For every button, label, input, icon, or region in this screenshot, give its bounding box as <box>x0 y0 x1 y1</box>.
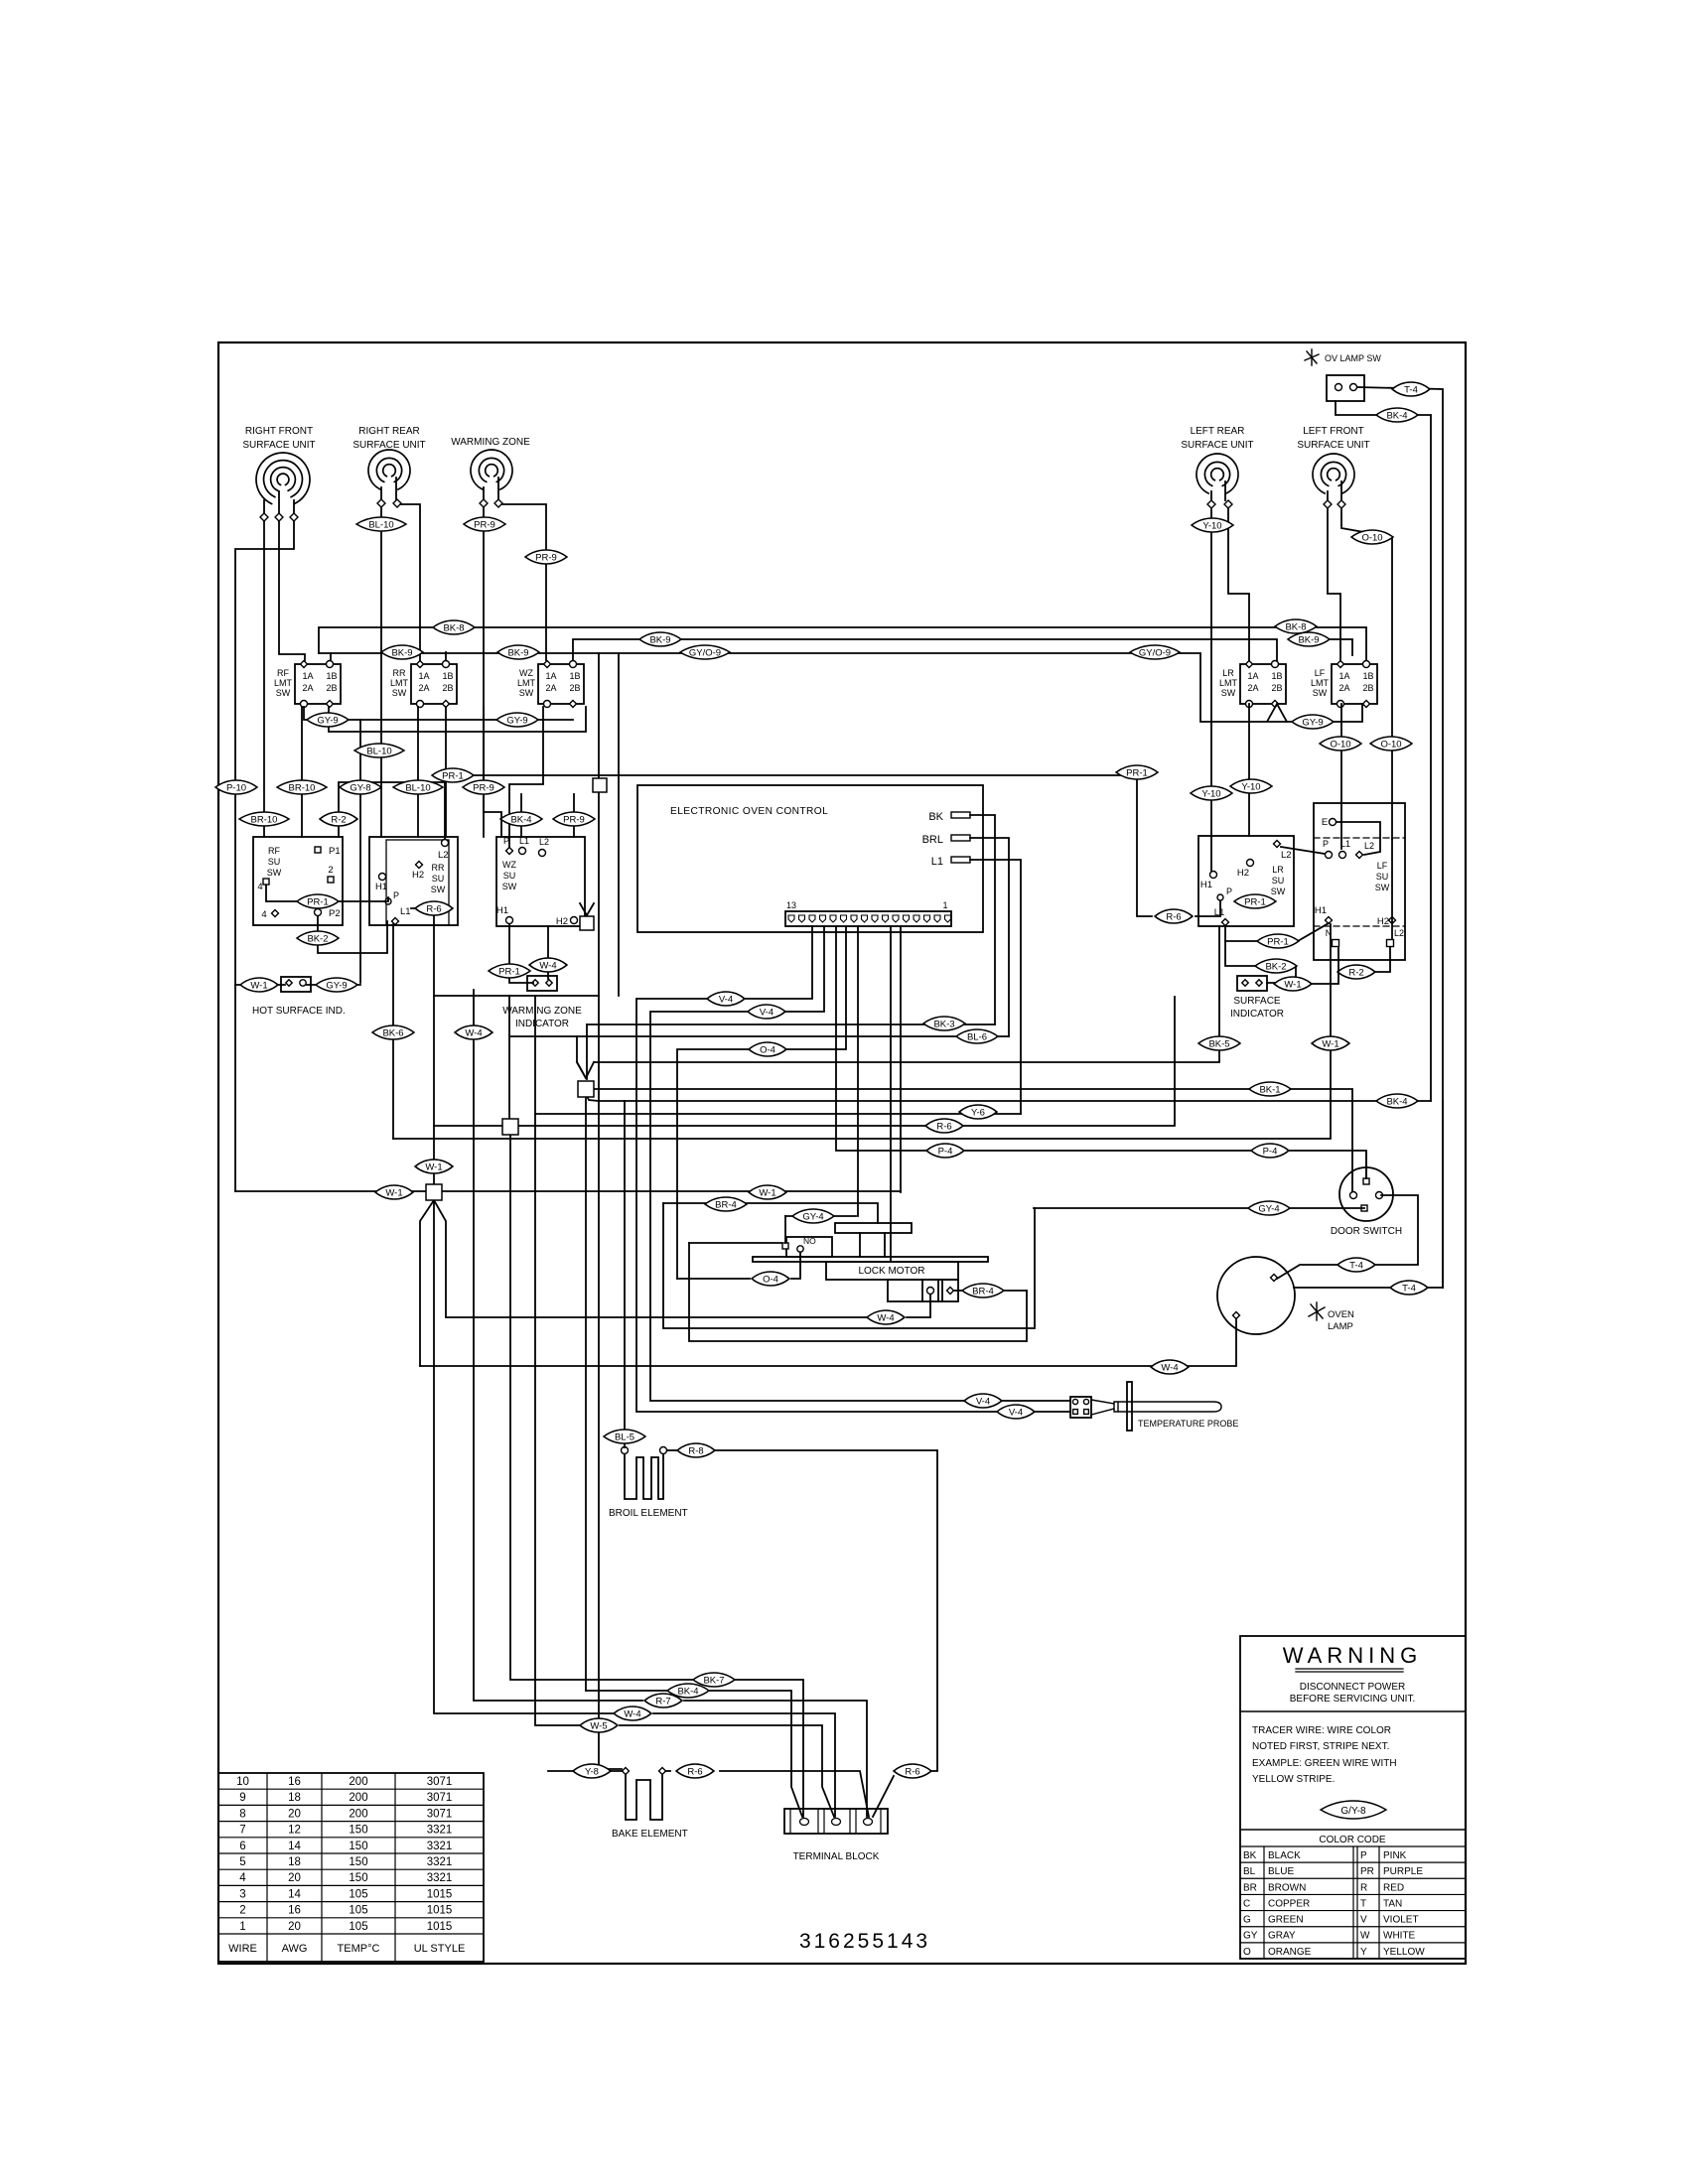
svg-text:SW: SW <box>519 688 534 698</box>
svg-text:L1: L1 <box>400 906 411 917</box>
limit switch WZ LMT SW <box>538 664 584 704</box>
svg-text:P2: P2 <box>329 908 341 919</box>
svg-text:BK-7: BK-7 <box>703 1675 724 1686</box>
wire label PR-1 <box>489 964 530 978</box>
wire label BL-10 <box>354 744 404 757</box>
svg-text:2B: 2B <box>1362 683 1373 693</box>
svg-text:W-1: W-1 <box>759 1187 775 1198</box>
wire pin 864 drop <box>857 926 859 1216</box>
svg-text:105: 105 <box>349 1921 367 1933</box>
svg-text:PR-9: PR-9 <box>563 814 585 825</box>
wire EOC L1 out <box>970 860 1021 1114</box>
svg-text:2B: 2B <box>442 683 453 693</box>
svg-text:ORANGE: ORANGE <box>1268 1947 1312 1958</box>
wire label BK-6 <box>372 1025 414 1039</box>
svg-text:C: C <box>1243 1898 1250 1909</box>
svg-text:LOCK MOTOR: LOCK MOTOR <box>858 1266 924 1277</box>
wire GY-4 row <box>785 1215 856 1217</box>
wire R-6 lr <box>1196 901 1220 916</box>
wire label BK-4 <box>500 812 542 826</box>
wire PR-1 lr <box>1137 775 1152 916</box>
lock motor cap <box>835 1223 912 1233</box>
wire label BK-9 <box>497 645 539 659</box>
svg-text:H2: H2 <box>1237 868 1249 879</box>
wire R-6 wz <box>411 907 434 909</box>
svg-text:16: 16 <box>288 1905 301 1917</box>
svg-text:150: 150 <box>349 1872 367 1884</box>
wire LR coil t2 down <box>1228 508 1249 660</box>
svg-text:3321: 3321 <box>427 1841 453 1852</box>
svg-text:EXAMPLE: GREEN WIRE WITH: EXAMPLE: GREEN WIRE WITH <box>1252 1758 1397 1769</box>
wire R-8 row <box>667 1449 678 1451</box>
svg-text:GY-9: GY-9 <box>317 715 338 726</box>
surface switch WZ SU SW <box>496 837 585 926</box>
svg-text:BR-10: BR-10 <box>289 782 316 793</box>
svg-text:V-4: V-4 <box>1009 1407 1023 1418</box>
svg-text:HOT SURFACE IND.: HOT SURFACE IND. <box>252 1006 346 1017</box>
wire label V-4 <box>748 1005 785 1019</box>
wire label R-2 <box>1337 965 1375 979</box>
svg-text:150: 150 <box>349 1856 367 1868</box>
svg-text:O-10: O-10 <box>1330 739 1350 750</box>
wire BK-3 row <box>587 1024 995 1025</box>
wire label BL-6 <box>956 1029 998 1043</box>
wire R-8 right <box>716 1450 937 1771</box>
svg-text:PR-9: PR-9 <box>535 552 557 563</box>
svg-text:150: 150 <box>349 1825 367 1837</box>
svg-text:SURFACE: SURFACE <box>1233 996 1281 1007</box>
svg-text:O: O <box>1243 1947 1251 1958</box>
wire R-6 vert <box>433 908 435 1184</box>
warming zone indicator <box>527 976 557 991</box>
svg-text:Y-6: Y-6 <box>971 1107 985 1118</box>
svg-text:2A: 2A <box>545 683 556 693</box>
junction J5 <box>580 916 594 930</box>
svg-text:GY/O-9: GY/O-9 <box>689 647 721 658</box>
svg-text:4: 4 <box>239 1872 246 1884</box>
svg-text:P-4: P-4 <box>1263 1146 1278 1157</box>
svg-text:H1: H1 <box>1315 905 1327 916</box>
wire label BL-10 <box>393 780 443 794</box>
svg-text:SW: SW <box>431 885 446 894</box>
surface switch LF SU SW <box>1314 803 1405 960</box>
electronic oven control box <box>637 785 983 932</box>
wire label T-4 <box>1390 1281 1428 1295</box>
svg-text:TEMP°C: TEMP°C <box>338 1943 380 1955</box>
svg-text:GY-8: GY-8 <box>350 782 370 793</box>
svg-text:O-10: O-10 <box>1380 739 1401 750</box>
svg-text:BK-6: BK-6 <box>382 1027 403 1038</box>
oven lamp <box>1217 1257 1295 1334</box>
wire label W-4 <box>867 1310 905 1324</box>
wire label P-4 <box>1251 1144 1289 1158</box>
wire label W-4 <box>529 958 567 972</box>
wire R-7 right <box>684 1701 867 1817</box>
svg-text:LMT: LMT <box>517 678 536 688</box>
wire label T-4 <box>1337 1258 1375 1272</box>
svg-text:SURFACE UNIT: SURFACE UNIT <box>242 440 315 451</box>
svg-text:14: 14 <box>288 1888 301 1900</box>
broil element <box>622 1447 629 1454</box>
svg-text:O-10: O-10 <box>1361 532 1382 543</box>
wire O-10 drop <box>1391 839 1393 939</box>
wire lamp T-4 upper <box>1277 1195 1418 1279</box>
surface switch RF SU SW <box>253 837 343 925</box>
wire label BL-10 <box>356 517 406 531</box>
svg-text:BK-9: BK-9 <box>391 647 412 658</box>
svg-text:R-7: R-7 <box>655 1696 670 1706</box>
wire W-1 fan <box>420 1200 434 1366</box>
svg-text:RF: RF <box>268 846 280 856</box>
wire label GY-9 <box>307 713 349 727</box>
surface switch RR SU SW <box>369 837 458 925</box>
wire WZ coil t2 down <box>502 504 546 660</box>
svg-text:1A: 1A <box>1338 671 1349 681</box>
svg-text:GY-9: GY-9 <box>326 980 347 991</box>
wire label PR-1 <box>1234 894 1276 908</box>
wire junction1 arc <box>586 1094 599 1101</box>
svg-text:LR: LR <box>1272 865 1284 875</box>
wire label R-8 <box>677 1443 715 1457</box>
svg-text:PR-1: PR-1 <box>1126 767 1148 778</box>
wire label BK-4 <box>1376 408 1418 422</box>
wire E link <box>1336 822 1380 855</box>
wire label GY/O-9 <box>1130 645 1180 659</box>
wire label R-6 <box>676 1764 714 1778</box>
svg-text:LR: LR <box>1222 668 1234 678</box>
wire O-4 row <box>677 926 846 1279</box>
wire BK-4 drop <box>520 794 522 837</box>
svg-text:P-10: P-10 <box>226 782 246 793</box>
svg-text:4: 4 <box>257 882 262 892</box>
wire label W-1 <box>375 1185 413 1199</box>
svg-text:T: T <box>1360 1898 1366 1909</box>
wire junction2 down <box>510 1135 693 1680</box>
svg-text:BK-9: BK-9 <box>1298 634 1319 645</box>
svg-text:R-2: R-2 <box>331 814 346 825</box>
wire W-1 long row <box>235 1190 901 1192</box>
svg-text:LF: LF <box>1315 668 1326 678</box>
junction J3 <box>426 1184 442 1200</box>
wire vert 603 <box>599 653 622 1769</box>
door switch <box>1339 1167 1393 1221</box>
svg-text:BRL: BRL <box>922 834 943 846</box>
wire EOC BK out <box>970 815 995 1024</box>
svg-text:WZ: WZ <box>519 668 533 678</box>
svg-text:NO: NO <box>803 1236 816 1246</box>
svg-text:BK-1: BK-1 <box>1259 1084 1280 1095</box>
svg-text:18: 18 <box>288 1856 301 1868</box>
wire label W-1 <box>240 978 278 992</box>
svg-text:PR-1: PR-1 <box>1244 896 1266 907</box>
wire BK-4 right drop <box>1442 1101 1444 1288</box>
svg-text:COLOR CODE: COLOR CODE <box>1319 1835 1386 1845</box>
svg-text:2B: 2B <box>569 683 580 693</box>
wire PR-1 row rf <box>266 886 388 901</box>
wire PR-1 lr2 <box>1225 923 1329 941</box>
wire bake R-6 right <box>666 1770 670 1772</box>
wire label Y-10 <box>1191 786 1232 800</box>
wire RR 1B stub <box>445 652 447 660</box>
limit switch RF LMT SW <box>295 664 341 704</box>
svg-text:BK-4: BK-4 <box>510 814 531 825</box>
wire label BK-4 <box>667 1684 709 1698</box>
svg-text:L2: L2 <box>1364 841 1374 851</box>
svg-text:RR: RR <box>393 668 406 678</box>
wire RF coil t2 down-left <box>279 521 305 660</box>
svg-text:PR-1: PR-1 <box>1267 936 1289 947</box>
EOC connector strip <box>785 911 951 926</box>
svg-text:SW: SW <box>502 882 517 891</box>
wire BK-4 bottom row <box>586 1690 667 1692</box>
wire BK-2 lr <box>1225 941 1256 966</box>
svg-text:GY-9: GY-9 <box>1302 717 1323 728</box>
svg-text:13: 13 <box>786 900 796 910</box>
svg-text:W-4: W-4 <box>1161 1362 1178 1373</box>
limit switch RR LMT SW <box>411 664 457 704</box>
wire door sw top <box>1365 1153 1367 1178</box>
svg-text:BL-10: BL-10 <box>405 782 430 793</box>
wire junction row 1097 <box>594 1089 1352 1191</box>
wire EOC BRL out <box>970 838 1009 1036</box>
wire RF coil t1 to RF SU SW <box>263 521 265 837</box>
wire RF coil t3 down-left <box>235 521 294 1191</box>
wire W-4 bottom right <box>653 1713 835 1817</box>
svg-text:RF: RF <box>277 668 289 678</box>
svg-text:BK-4: BK-4 <box>677 1686 698 1697</box>
svg-text:1B: 1B <box>1362 671 1373 681</box>
svg-text:O-4: O-4 <box>763 1274 778 1285</box>
svg-text:H1: H1 <box>496 905 508 916</box>
svg-text:RR: RR <box>432 863 445 873</box>
wire BK-7 right <box>735 1680 803 1817</box>
wire door GY-4 row <box>1034 1207 1364 1209</box>
wire NO row 1252 <box>689 1242 781 1244</box>
wire Y-6 row <box>535 996 1021 1114</box>
svg-text:W-4: W-4 <box>877 1312 894 1323</box>
svg-text:R-6: R-6 <box>905 1766 919 1777</box>
lock motor plate <box>753 1257 988 1262</box>
svg-text:V-4: V-4 <box>719 994 733 1005</box>
wire label W-1 <box>415 1160 453 1173</box>
svg-text:WARMING ZONE: WARMING ZONE <box>451 437 530 448</box>
svg-text:BR-4: BR-4 <box>715 1199 737 1210</box>
svg-text:T-4: T-4 <box>1349 1260 1363 1271</box>
wire label R-2 <box>320 812 357 826</box>
wire label P-10 <box>215 780 257 794</box>
wire label W-1 <box>1274 977 1312 991</box>
wire V arm left <box>577 1036 586 1078</box>
wire surf ind <box>1267 966 1296 983</box>
junction J4 <box>593 778 607 792</box>
svg-text:1015: 1015 <box>427 1888 453 1900</box>
wire label R-7 <box>644 1694 682 1707</box>
wire label BK-9 <box>1288 632 1330 646</box>
svg-text:P: P <box>1323 839 1329 849</box>
wire V-4 row1 <box>636 926 1070 1412</box>
wire R-2 lf <box>1376 947 1390 972</box>
svg-text:Y-10: Y-10 <box>1241 781 1260 792</box>
wire label GY/O-9 <box>680 645 730 659</box>
surface unit LF coil <box>1313 454 1354 493</box>
wire label BK-1 <box>1249 1082 1291 1096</box>
wire O-4 to NO <box>677 1278 750 1280</box>
wire BK-4 bottom right <box>709 1691 802 1817</box>
svg-text:RIGHT FRONT: RIGHT FRONT <box>245 426 313 437</box>
wire label Y-10 <box>1192 518 1233 532</box>
svg-text:L2: L2 <box>539 837 549 847</box>
wire R-2 link <box>339 782 445 839</box>
svg-text:1A: 1A <box>302 671 313 681</box>
wire label PR-9 <box>553 812 595 826</box>
svg-text:L1: L1 <box>931 856 943 868</box>
lock motor body <box>826 1262 958 1280</box>
svg-text:V-4: V-4 <box>976 1396 990 1407</box>
wire GY-4 NO drop <box>784 1216 786 1243</box>
svg-text:PR-1: PR-1 <box>442 770 464 781</box>
svg-text:BK-8: BK-8 <box>1285 621 1306 632</box>
svg-text:105: 105 <box>349 1905 367 1917</box>
svg-text:Y-10: Y-10 <box>1201 788 1220 799</box>
wire BK-3 vert <box>586 1024 588 1079</box>
svg-text:WARMING ZONE: WARMING ZONE <box>502 1006 582 1017</box>
wire label P-4 <box>926 1144 964 1158</box>
wire GY-8 vertical <box>359 720 361 983</box>
wire W-1 fan2 <box>434 1200 867 1317</box>
svg-text:BK-4: BK-4 <box>1386 410 1407 421</box>
warming zone coil <box>471 450 512 489</box>
svg-text:RIGHT REAR: RIGHT REAR <box>358 426 420 437</box>
wire label BK-4 <box>1376 1094 1418 1108</box>
wire label V-4 <box>707 992 745 1006</box>
wire W-4 lock <box>907 1295 930 1317</box>
svg-text:1015: 1015 <box>427 1905 453 1917</box>
svg-text:200: 200 <box>349 1808 367 1820</box>
svg-text:H2: H2 <box>412 870 424 881</box>
svg-text:150: 150 <box>349 1841 367 1852</box>
wire BR-4 lock right <box>954 1290 962 1292</box>
svg-text:PR-9: PR-9 <box>473 782 494 793</box>
bake element <box>623 1768 630 1775</box>
svg-text:PR-1: PR-1 <box>498 966 520 977</box>
svg-text:SW: SW <box>392 688 407 698</box>
wire vert 668 <box>663 1203 1035 1328</box>
svg-text:1B: 1B <box>569 671 580 681</box>
wire GY-9 row left <box>304 707 573 720</box>
svg-text:BK-4: BK-4 <box>1386 1096 1407 1107</box>
svg-text:W-1: W-1 <box>425 1161 442 1172</box>
lock motor NO switch <box>786 1237 832 1257</box>
wire label BK-9 <box>639 632 681 646</box>
wire GY-9 right link <box>1332 704 1362 722</box>
svg-text:SU: SU <box>1272 876 1285 886</box>
svg-text:3071: 3071 <box>427 1808 453 1820</box>
terminal block <box>784 1809 888 1834</box>
svg-text:SU: SU <box>503 871 516 881</box>
svg-text:GRAY: GRAY <box>1268 1931 1296 1942</box>
wire label GY-9 <box>1292 715 1334 729</box>
svg-text:VIOLET: VIOLET <box>1383 1915 1419 1926</box>
svg-text:4: 4 <box>261 909 266 920</box>
svg-text:200: 200 <box>349 1792 367 1804</box>
svg-text:PR: PR <box>1360 1866 1374 1877</box>
wire PR-1 long row <box>435 774 1137 776</box>
svg-text:BR: BR <box>1243 1882 1257 1893</box>
svg-text:BK-9: BK-9 <box>507 647 528 658</box>
svg-text:2A: 2A <box>302 683 313 693</box>
svg-text:3: 3 <box>239 1888 245 1900</box>
wire pin 897 drop <box>890 926 892 1262</box>
wire BL-6 row <box>509 1035 1009 1037</box>
svg-text:1015: 1015 <box>427 1921 453 1933</box>
svg-text:3071: 3071 <box>427 1792 453 1804</box>
color code table <box>1240 1829 1466 1831</box>
svg-text:BK-5: BK-5 <box>1208 1038 1229 1049</box>
svg-text:R-6: R-6 <box>936 1121 951 1132</box>
wire OV LAMP SW right to T-4 <box>1357 387 1443 1288</box>
junction J1 <box>578 1081 594 1097</box>
wire label BK-2 <box>1255 959 1297 973</box>
wire label V-4 <box>964 1394 1002 1408</box>
svg-text:TERMINAL BLOCK: TERMINAL BLOCK <box>793 1851 880 1862</box>
svg-text:O-4: O-4 <box>760 1044 775 1055</box>
svg-text:7: 7 <box>239 1825 245 1837</box>
svg-text:R-6: R-6 <box>426 903 441 914</box>
wire fan4 <box>420 1319 1236 1366</box>
svg-text:H2: H2 <box>1377 916 1389 927</box>
svg-text:LEFT REAR: LEFT REAR <box>1191 426 1245 437</box>
wire label BL-5 <box>604 1430 645 1443</box>
svg-text:DOOR SWITCH: DOOR SWITCH <box>1331 1226 1402 1237</box>
wire W-5 drop <box>535 1114 581 1725</box>
svg-text:Y: Y <box>1360 1947 1367 1958</box>
wire P-4 row <box>836 926 1366 1178</box>
svg-text:BK-9: BK-9 <box>649 634 670 645</box>
wire label BK-9 <box>381 645 423 659</box>
svg-text:1B: 1B <box>1271 671 1282 681</box>
wire label GY-9 <box>496 713 538 727</box>
svg-text:BLACK: BLACK <box>1268 1850 1301 1861</box>
svg-text:E: E <box>1322 817 1328 828</box>
svg-text:GY-4: GY-4 <box>1258 1203 1279 1214</box>
svg-text:W-4: W-4 <box>465 1027 482 1038</box>
wire BK-8 row <box>319 627 1366 660</box>
wire O-4 right <box>791 1253 800 1279</box>
wire V-4 row2 <box>650 926 1070 1401</box>
surface indicator <box>1237 976 1267 991</box>
wire RF 1B stub <box>330 653 332 660</box>
svg-text:H1: H1 <box>1200 880 1212 890</box>
wire label W-4 <box>1151 1360 1189 1374</box>
svg-text:OV LAMP SW: OV LAMP SW <box>1325 353 1381 363</box>
wire label BK-8 <box>1275 619 1317 633</box>
wire label PR-1 <box>1257 934 1299 948</box>
wire label O-4 <box>749 1042 786 1056</box>
svg-text:105: 105 <box>349 1888 367 1900</box>
svg-text:BEFORE SERVICING UNIT.: BEFORE SERVICING UNIT. <box>1290 1694 1416 1705</box>
wire label R-6 <box>894 1764 931 1778</box>
svg-text:OVEN: OVEN <box>1328 1309 1354 1320</box>
svg-text:6: 6 <box>239 1841 245 1852</box>
svg-text:WARNING: WARNING <box>1283 1643 1423 1668</box>
wire row 1003 <box>434 995 599 997</box>
svg-text:12: 12 <box>288 1825 301 1837</box>
surface switch LR SU SW <box>1198 836 1294 926</box>
svg-text:3071: 3071 <box>427 1776 453 1788</box>
wire W-1 lf vert <box>393 924 1331 1139</box>
svg-text:2A: 2A <box>1247 683 1258 693</box>
svg-text:1A: 1A <box>1247 671 1258 681</box>
